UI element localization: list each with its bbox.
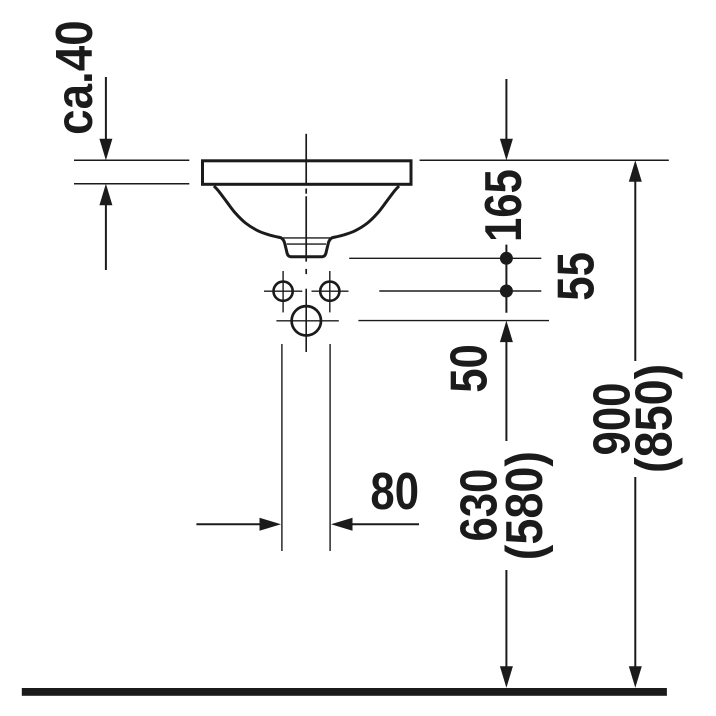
- svg-text:(850): (850): [625, 364, 683, 473]
- centerline dot 1: [305, 189, 307, 194]
- faucet hole right crosshair vertical: [329, 271, 331, 312]
- dim 900 line lower: [634, 477, 636, 667]
- dim 165 arrow tail: [505, 79, 507, 140]
- svg-text:(580): (580): [496, 451, 554, 560]
- dim line through dots: [505, 245, 507, 313]
- dimension dot upper: [500, 252, 513, 265]
- dim 50 arrowhead up: [500, 321, 513, 343]
- faucet hole right crosshair horizontal: [312, 290, 349, 292]
- svg-text:165: 165: [476, 169, 533, 242]
- counter top line right: [420, 159, 669, 161]
- drain flange line: [283, 237, 331, 239]
- svg-text:50: 50: [441, 344, 498, 393]
- faucet hole left: [274, 282, 293, 301]
- dim ca.40 bottom arrow tail: [105, 205, 107, 271]
- dim 900 arrowhead down at floor: [629, 666, 642, 688]
- svg-text:55: 55: [548, 252, 605, 301]
- centerline dash 1: [305, 134, 307, 183]
- dim 80 left arrowhead: [260, 518, 282, 531]
- dimension dot lower: [500, 285, 513, 298]
- dim 80 right arrow tail: [352, 523, 419, 525]
- ref line at drain hole level: [358, 320, 549, 322]
- washbasin bowl with drain outlet: [214, 186, 399, 257]
- ref line at drain bottom level: [349, 257, 541, 259]
- dim 80 right arrowhead: [331, 518, 353, 531]
- centerline dash 2: [305, 196, 307, 261]
- washbasin rim: [203, 161, 412, 185]
- dim 900 arrowhead up at counter: [629, 160, 642, 182]
- dim 80 left arrow tail: [196, 523, 261, 525]
- drain hole crosshair horizontal: [276, 320, 338, 322]
- dim 630 line upper: [505, 342, 507, 441]
- svg-text:80: 80: [370, 463, 419, 520]
- faucet hole right: [320, 282, 339, 301]
- dim 630 arrowhead down at floor: [500, 666, 513, 688]
- centerline dash 3 through drain hole: [305, 289, 307, 352]
- dim ca.40 top arrow tail: [105, 77, 107, 140]
- extension line right for dim 80: [329, 344, 331, 551]
- counter top line left: [74, 159, 189, 161]
- dim 630 line lower: [505, 570, 507, 667]
- drain inner line: [287, 243, 326, 245]
- centerline dot 2: [305, 269, 307, 274]
- faucet hole left crosshair vertical: [282, 271, 284, 312]
- dim 165 arrowhead down: [500, 139, 513, 161]
- counter underside line left: [74, 183, 189, 185]
- extension line left for dim 80: [281, 344, 283, 551]
- drain hole large circle: [292, 306, 321, 335]
- faucet hole left crosshair horizontal: [264, 290, 302, 292]
- ref line at faucet holes level: [379, 290, 541, 292]
- svg-text:ca.40: ca.40: [46, 20, 103, 134]
- dim ca.40 arrowhead down: [99, 139, 112, 161]
- dim 900 line upper: [634, 181, 636, 361]
- floor line: [22, 688, 667, 696]
- dim ca.40 arrowhead up: [99, 184, 112, 206]
